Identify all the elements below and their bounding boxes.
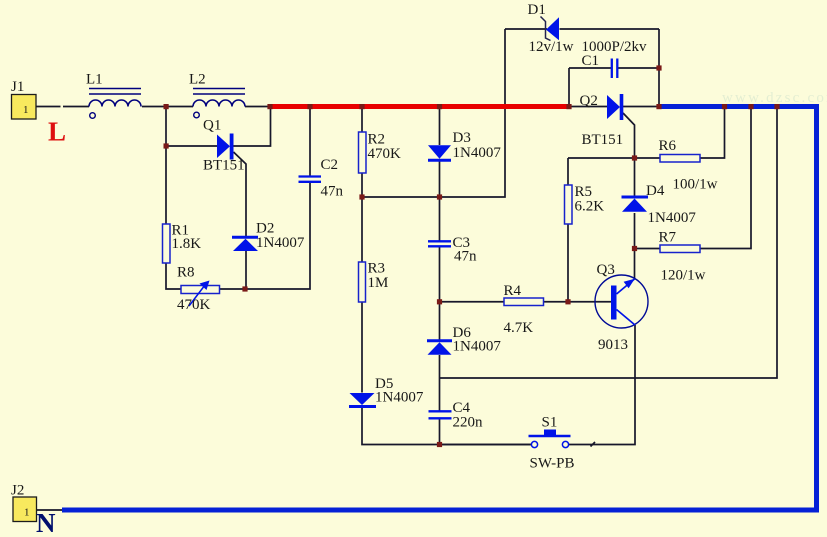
svg-text:1N4007: 1N4007 bbox=[648, 210, 697, 226]
svg-text:1: 1 bbox=[23, 104, 29, 116]
wire C1 left corner bbox=[568, 68, 570, 107]
diode D2 bbox=[232, 237, 258, 251]
svg-text:L1: L1 bbox=[86, 72, 103, 88]
node red start bbox=[267, 104, 272, 109]
wire C1 row bbox=[569, 67, 659, 69]
diode D5 bbox=[349, 393, 376, 407]
svg-text:L: L bbox=[48, 117, 66, 147]
wire R8 right to C2 bottom bbox=[220, 182, 311, 290]
switch S1 bbox=[529, 430, 571, 448]
diode D4 bbox=[622, 197, 649, 212]
resistor R3 bbox=[359, 262, 366, 302]
node red end bbox=[566, 104, 571, 109]
capacitor C4 bbox=[429, 411, 452, 418]
node D4/R7 bbox=[632, 246, 637, 251]
node R8/D2 bbox=[242, 286, 247, 291]
capacitor C2 bbox=[299, 177, 322, 182]
wire D6 bottom to C4 bbox=[439, 355, 441, 411]
inductor L1 bbox=[89, 89, 141, 119]
wire R2 branch bbox=[361, 107, 363, 198]
resistor R5 bbox=[565, 185, 573, 224]
svg-text:100/1w: 100/1w bbox=[673, 177, 718, 193]
wire R4 left bbox=[440, 301, 505, 303]
svg-text:BT151: BT151 bbox=[582, 132, 624, 148]
svg-text:Q3: Q3 bbox=[597, 262, 615, 278]
svg-text:R7: R7 bbox=[659, 230, 677, 246]
wire Q3 emitter down bbox=[569, 325, 636, 445]
svg-text:9013: 9013 bbox=[598, 337, 628, 353]
svg-text:C1: C1 bbox=[582, 53, 600, 69]
wire R1 branch bbox=[166, 146, 181, 289]
wire D2 bottom bbox=[245, 251, 247, 289]
node Q1 anode bbox=[164, 143, 169, 148]
wire D4 top bbox=[634, 158, 636, 197]
diode D6 bbox=[427, 341, 452, 355]
wire D1 row bbox=[505, 28, 659, 30]
thyristor Q2 bbox=[607, 94, 623, 120]
node D3 top bbox=[437, 104, 442, 109]
svg-text:1N4007: 1N4007 bbox=[375, 390, 424, 406]
svg-text:47n: 47n bbox=[454, 249, 477, 265]
node C2 top bbox=[307, 104, 312, 109]
resistor R4 bbox=[504, 298, 544, 306]
svg-text:12v/1w: 12v/1w bbox=[529, 39, 574, 55]
svg-text:1M: 1M bbox=[368, 275, 389, 291]
svg-text:1N4007: 1N4007 bbox=[453, 339, 502, 355]
wire: thick blue N rail bbox=[62, 107, 817, 511]
wire right column x659 bbox=[658, 29, 660, 107]
wire D6 net to right column bbox=[440, 109, 778, 378]
svg-text:220n: 220n bbox=[453, 415, 484, 431]
wire R3 branch bbox=[361, 197, 363, 393]
wire tick near S1 bbox=[591, 442, 596, 447]
wire C2 top bbox=[309, 107, 311, 177]
svg-text:J2: J2 bbox=[11, 483, 24, 499]
wire Q2 gate bbox=[623, 113, 635, 158]
svg-text:BT151: BT151 bbox=[203, 158, 245, 174]
svg-text:470K: 470K bbox=[368, 146, 402, 162]
svg-text:120/1w: 120/1w bbox=[661, 268, 706, 284]
svg-text:D1: D1 bbox=[528, 2, 546, 18]
wire D5 bottom to S1 bbox=[362, 407, 532, 445]
inductor L2 bbox=[193, 89, 245, 118]
wire C3 branch bbox=[439, 197, 441, 302]
wire Q1 gate to D2 bbox=[234, 152, 247, 237]
wire L1 to L2 bbox=[142, 106, 193, 108]
svg-text:J1: J1 bbox=[11, 79, 24, 95]
wire S1 row junction bbox=[440, 444, 532, 446]
svg-text:R8: R8 bbox=[177, 265, 195, 281]
resistor R1 bbox=[163, 224, 171, 263]
wire D4 bottom bbox=[634, 213, 636, 249]
wire R7 right bbox=[700, 109, 751, 249]
node D6 drop bbox=[774, 104, 779, 109]
wire Q2 right to blue bbox=[623, 106, 659, 108]
wire bus y197 bbox=[362, 29, 505, 197]
wire Q1 right lead up to rail bbox=[234, 107, 271, 147]
node C4/S1 bbox=[437, 442, 442, 447]
transistor Q3 bbox=[595, 275, 648, 328]
svg-text:Q2: Q2 bbox=[580, 93, 598, 109]
diode D3 bbox=[428, 145, 451, 160]
node blue start bbox=[656, 104, 661, 109]
resistor R7 bbox=[660, 245, 700, 253]
wire: thick red L rail bbox=[270, 104, 569, 109]
svg-text:1: 1 bbox=[24, 507, 30, 519]
svg-text:L2: L2 bbox=[189, 72, 206, 88]
svg-text:D3: D3 bbox=[453, 130, 471, 146]
thyristor Q1 bbox=[217, 134, 234, 160]
node R5 bottom bbox=[565, 299, 570, 304]
svg-text:4.7K: 4.7K bbox=[504, 320, 534, 336]
node R7 drop bbox=[748, 104, 753, 109]
wire R5 vertical bbox=[567, 158, 569, 302]
wire C4 bottom bbox=[439, 419, 441, 445]
svg-text:SW-PB: SW-PB bbox=[530, 456, 575, 472]
wire J1 to L1 bbox=[36, 106, 89, 108]
svg-text:470K: 470K bbox=[177, 297, 211, 313]
wire R4 right to base bbox=[544, 301, 612, 303]
connector J1 bbox=[12, 95, 37, 120]
wire Q3 collector up bbox=[634, 249, 636, 280]
svg-text:S1: S1 bbox=[542, 415, 558, 431]
wire R5 top row bbox=[568, 157, 660, 159]
node R2 bottom bbox=[359, 194, 364, 199]
node R2 top bbox=[359, 104, 364, 109]
svg-text:1.8K: 1.8K bbox=[172, 236, 202, 252]
svg-text:6.2K: 6.2K bbox=[575, 199, 605, 215]
svg-text:D4: D4 bbox=[646, 183, 665, 199]
svg-text:www.dzsc.com: www.dzsc.com bbox=[722, 90, 827, 106]
node D3 bottom bbox=[437, 194, 442, 199]
node C3/R4/D6 bbox=[437, 299, 442, 304]
resistor R8 (variable) bbox=[181, 281, 220, 307]
wire L2 to red start bbox=[245, 106, 270, 108]
resistor R2 bbox=[359, 132, 367, 173]
resistor R6 bbox=[660, 155, 700, 163]
node L1/R1 bbox=[164, 104, 169, 109]
node Q2 gate bbox=[632, 155, 637, 160]
svg-text:N: N bbox=[36, 508, 56, 537]
svg-text:Q1: Q1 bbox=[203, 118, 221, 134]
capacitor C1 bbox=[612, 59, 618, 79]
svg-text:47n: 47n bbox=[321, 184, 344, 200]
wire R7 left bbox=[635, 248, 661, 250]
node C1 right bbox=[656, 65, 661, 70]
svg-text:R4: R4 bbox=[504, 283, 522, 299]
wire Q1 left lead bbox=[166, 145, 217, 147]
wire red end to Q2 bbox=[569, 106, 607, 108]
connector J2 bbox=[13, 497, 37, 522]
wire D3 branch bbox=[439, 107, 441, 198]
zener diode D1 bbox=[541, 17, 560, 41]
svg-text:1N4007: 1N4007 bbox=[453, 145, 502, 161]
wire node to Q1 row bbox=[165, 107, 167, 147]
wire J2 to blue bbox=[37, 509, 64, 511]
wire D6 top bbox=[439, 302, 441, 341]
svg-text:C2: C2 bbox=[321, 157, 339, 173]
node R6 drop bbox=[722, 104, 727, 109]
capacitor C3 bbox=[428, 241, 451, 246]
wire R6 right bbox=[700, 109, 725, 158]
svg-text:R6: R6 bbox=[659, 138, 677, 154]
svg-text:1N4007: 1N4007 bbox=[256, 235, 305, 251]
